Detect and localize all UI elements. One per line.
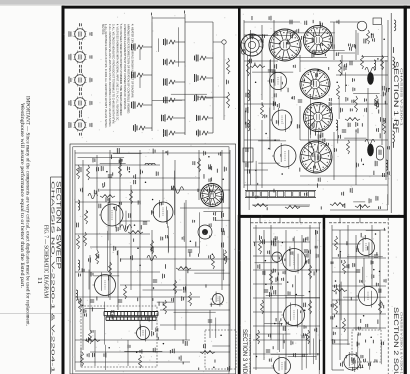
- svg-text:5. DC VOLTAGES TAKEN WITH CONT: 5. DC VOLTAGES TAKEN WITH CONTRAST AT MI…: [119, 24, 123, 116]
- svg-text:3. ALL VOLTAGES MEASURED FROM: 3. ALL VOLTAGES MEASURED FROM SOCKET TER…: [112, 24, 116, 124]
- svg-text:11: 11: [36, 277, 42, 284]
- svg-text:FIG. 7 — SCHEMATIC DIAGRAM: FIG. 7 — SCHEMATIC DIAGRAM: [42, 225, 48, 299]
- svg-text:CHASSIS V-2200-1: CHASSIS V-2200-1: [248, 334, 252, 374]
- svg-text:2. ALL CAPACITANCE VALUES LESS: 2. ALL CAPACITANCE VALUES LESS THAN 1 IN…: [108, 24, 112, 127]
- svg-text:SECTION 3 VIDEO: SECTION 3 VIDEO: [241, 329, 247, 374]
- svg-text:1. ALL RESISTANCE VALUES IN OH: 1. ALL RESISTANCE VALUES IN OHMS. K=1000…: [104, 24, 108, 128]
- svg-text:SECTION 4 SWEEP: SECTION 4 SWEEP: [55, 181, 61, 269]
- svg-text:CHASSIS V-2200-1: CHASSIS V-2200-1: [399, 68, 403, 127]
- svg-text:CHASSIS NO. V-2200-1 & V-2204-: CHASSIS NO. V-2200-1 & V-2204-1: [49, 181, 55, 374]
- svg-text:ARROWS INDICATE DIRECTION OF R: ARROWS INDICATE DIRECTION OF ROTATION OF…: [127, 24, 131, 114]
- svg-text:CHASSIS V-2200-1 & V-2204-1: CHASSIS V-2200-1 & V-2204-1: [399, 312, 403, 374]
- svg-text:4. HEATER CIRCUIT WIRING SHOWN: 4. HEATER CIRCUIT WIRING SHOWN AT LEFT O…: [130, 24, 134, 98]
- svg-text:Westinghouse will assure perfo: Westinghouse will assure performance equ…: [19, 103, 26, 289]
- svg-text:4. VOLTAGES SHOWN ARE WITH NO: 4. VOLTAGES SHOWN ARE WITH NO SIGNAL INP…: [115, 24, 119, 121]
- svg-text:SECTION 2 SOUND: SECTION 2 SOUND: [392, 307, 399, 374]
- svg-text:SECTION 1 RF: SECTION 1 RF: [392, 61, 399, 133]
- svg-text:X INDICATES ALIGNMENT TEST POI: X INDICATES ALIGNMENT TEST POINT CONNECT…: [123, 24, 127, 110]
